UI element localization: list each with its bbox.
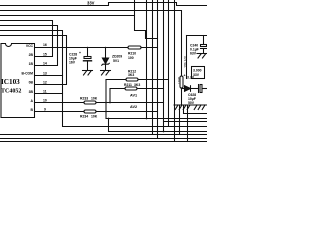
svg-text:AV2: AV2: [130, 105, 137, 109]
wire bottom bus line B2: [0, 138, 207, 140]
svg-text:2B: 2B: [29, 53, 34, 57]
wire pin 16 VCC rail: [35, 47, 129, 49]
svg-text:63V: 63V: [190, 52, 197, 56]
diode D mid right: [182, 88, 185, 90]
node 3.3V label: [184, 74, 195, 80]
wire bottom bus line B1: [0, 134, 207, 136]
node crystal 3.000 box: [192, 67, 205, 79]
node R617 label: [177, 77, 181, 85]
ground under ZD209: [101, 70, 111, 72]
node IC pin numbers: [43, 43, 47, 111]
node IC103 reference label: [1, 78, 21, 95]
node AV1 label: [130, 94, 137, 98]
node junction dots: [87, 47, 183, 133]
wire top stub x134: [134, 0, 136, 16]
wire y121 branch: [164, 121, 208, 123]
capacitor C228: [87, 48, 89, 57]
wire AV1 from pin 10: [35, 102, 85, 104]
node IC pin names: [22, 44, 34, 112]
svg-text:11: 11: [43, 89, 47, 93]
svg-text:10K: 10K: [91, 96, 98, 100]
op-amp IC103 TC4052 body: [1, 44, 35, 118]
capacitor C240 module border: [187, 35, 208, 37]
svg-text:10: 10: [43, 98, 47, 102]
capacitor C240: [203, 36, 205, 45]
svg-text:TC4052: TC4052: [1, 89, 21, 95]
wire 33V bus line L1: [0, 3, 207, 6]
svg-text:3.000: 3.000: [193, 68, 202, 72]
svg-text:R211: R211: [124, 83, 132, 87]
wire AV2 from pin 9: [35, 111, 85, 113]
svg-text:3B: 3B: [29, 90, 34, 94]
svg-text:IC103: IC103: [1, 78, 20, 86]
wire vertical x108 to y131: [109, 119, 208, 132]
wire R211 branch from AV2: [110, 89, 125, 103]
svg-text:B: B: [31, 108, 34, 112]
resistor R233: [84, 101, 96, 104]
svg-text:33V: 33V: [193, 73, 200, 77]
svg-text:13: 13: [43, 71, 47, 75]
wire right bus v4: [163, 0, 165, 132]
svg-text:16V: 16V: [69, 61, 76, 65]
node AV2 label: [130, 105, 137, 109]
resistor R234: [84, 110, 96, 113]
node connector vertical text: [183, 56, 187, 68]
ground under C228: [83, 70, 93, 72]
wire bottom bus line B3: [0, 141, 207, 143]
svg-text:9: 9: [44, 107, 46, 111]
diode zener ZD209: [105, 48, 107, 59]
wire bus line L2 to R617: [0, 11, 182, 77]
wire VCC rail after R210: [141, 47, 158, 49]
resistor R210: [128, 46, 141, 49]
svg-text:15: 15: [43, 52, 47, 56]
svg-text:100: 100: [128, 56, 134, 60]
svg-text:3K3: 3K3: [128, 73, 134, 77]
wire right bus v6: [174, 0, 176, 142]
wire R212 to bus: [138, 79, 169, 81]
resistor R212: [126, 78, 138, 81]
wire bus line L7 to pin 12: [0, 36, 67, 85]
wire right bus v2: [152, 0, 154, 135]
svg-text:R234: R234: [80, 114, 88, 118]
wire bus line L3 staircase: [0, 16, 158, 39]
wire pin 13 stub: [35, 75, 63, 77]
wire bus line L6 long vertical to bottom bus: [0, 31, 207, 127]
svg-text:VCC: VCC: [26, 44, 34, 48]
ground under C240: [197, 53, 207, 55]
svg-text:0B: 0B: [29, 81, 34, 85]
capacitor C628 horizontal: [198, 85, 200, 93]
svg-text:3K3: 3K3: [134, 83, 140, 87]
resistor R617 vertical: [180, 76, 183, 88]
wire AV2 to bus: [96, 111, 158, 113]
svg-text:10K: 10K: [91, 114, 98, 118]
ground chassis bar bottom right: [174, 104, 207, 106]
wire bus line L5 to pin 14: [0, 26, 58, 66]
wire right edge staircase below ground bar: [179, 105, 181, 135]
wire R212 branch from AV1: [106, 80, 126, 119]
svg-text:B-COM: B-COM: [22, 72, 34, 76]
wire bus line L4 to pin 15: [0, 21, 53, 57]
wire right bus v3: [157, 0, 159, 139]
svg-text:50V: 50V: [188, 101, 195, 105]
svg-text:12: 12: [43, 80, 47, 84]
wire AV1 to bus: [96, 102, 164, 104]
svg-text:R233: R233: [80, 96, 88, 100]
wire R617 lead to chassis ground: [181, 88, 183, 105]
svg-text:16: 16: [43, 43, 47, 47]
svg-text:A: A: [31, 99, 34, 103]
svg-text:+: +: [79, 51, 81, 55]
svg-text:14: 14: [43, 61, 47, 65]
wire mid horizontal y118: [106, 118, 207, 120]
svg-text:33V: 33V: [87, 1, 95, 6]
svg-text:5V1: 5V1: [113, 59, 119, 63]
svg-text:AV1: AV1: [130, 94, 137, 98]
svg-text:1B: 1B: [29, 62, 34, 66]
wire pin 11 stub: [35, 93, 63, 95]
wire R211 to bus: [137, 88, 164, 90]
wire right bus v1: [146, 0, 148, 119]
node 33V label: [87, 1, 95, 6]
resistor R211: [125, 87, 137, 90]
svg-text:+: +: [184, 74, 186, 78]
wire right bus v5: [168, 0, 170, 127]
